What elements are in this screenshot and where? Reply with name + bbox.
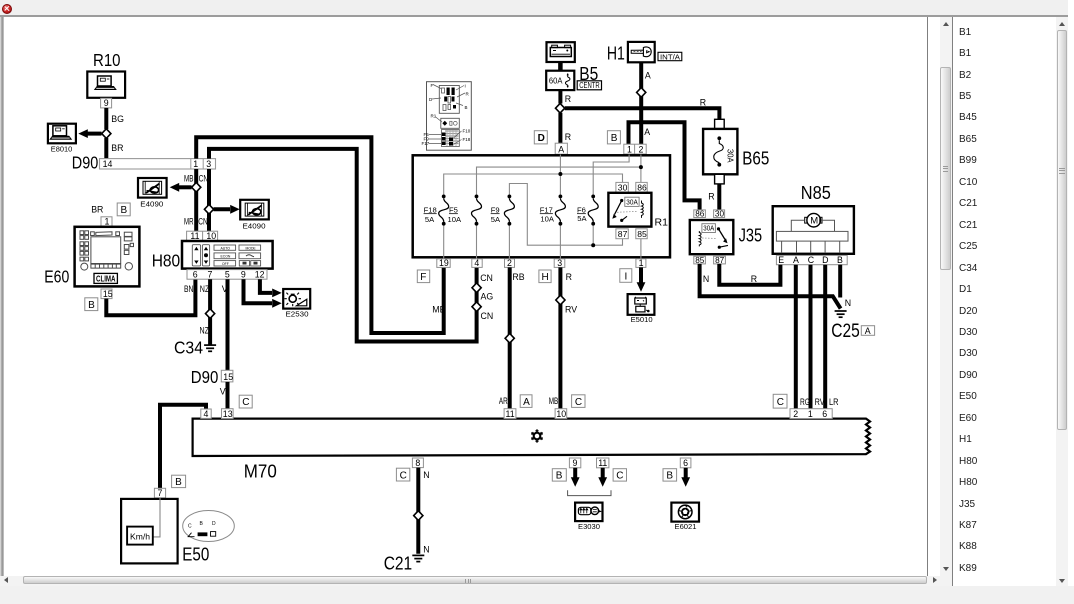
svg-text:J35: J35 <box>739 225 763 246</box>
pin 9 of M70 <box>569 458 580 468</box>
wire NZ from H80 pin7 to ground C34 <box>200 279 211 345</box>
wire R J35-87 to N85-E <box>719 264 780 285</box>
svg-text:N: N <box>423 470 429 480</box>
fuse 60A B5 <box>546 63 601 90</box>
connector B (E50) <box>172 475 186 488</box>
svg-text:F6: F6 <box>577 205 586 214</box>
svg-text:7: 7 <box>158 488 163 498</box>
svg-text:C: C <box>400 470 407 481</box>
svg-text:6: 6 <box>193 270 198 280</box>
component E3030 heated window <box>575 503 602 532</box>
connector C (M70 right) <box>773 394 787 408</box>
svg-text:M: M <box>810 216 818 227</box>
pin 9 of R10 <box>101 98 112 108</box>
component H1 ignition switch <box>607 42 682 64</box>
pin 11 of M70 bottom <box>597 458 609 468</box>
ground C25 <box>831 311 860 342</box>
svg-text:1: 1 <box>193 159 198 169</box>
svg-text:5A: 5A <box>425 215 435 224</box>
svg-text:H80: H80 <box>152 251 181 271</box>
svg-text:F5: F5 <box>449 205 458 214</box>
relay J35 <box>690 210 762 265</box>
svg-text:CLIMA: CLIMA <box>96 274 116 284</box>
splice diamond CN <box>204 205 213 215</box>
svg-text:NZ: NZ <box>200 284 210 294</box>
svg-text:E3030: E3030 <box>578 522 600 531</box>
svg-text:11: 11 <box>598 458 607 468</box>
svg-text:N: N <box>845 298 851 308</box>
svg-text:10: 10 <box>556 409 566 419</box>
wire MB bus: D90 pin1 up, right, down to fusebox pin 19 <box>196 137 445 333</box>
svg-text:C: C <box>808 255 815 265</box>
splice diamond H1 <box>637 88 646 98</box>
svg-text:1: 1 <box>105 217 110 227</box>
svg-text:B: B <box>837 255 843 265</box>
connector A (C25) <box>861 326 874 336</box>
svg-text:A: A <box>865 326 871 336</box>
svg-text:B: B <box>666 471 673 482</box>
connector F <box>417 270 429 283</box>
component B5 battery <box>547 42 575 62</box>
svg-text:BR: BR <box>91 204 103 214</box>
pin 8 of M70 <box>412 458 423 468</box>
svg-text:86: 86 <box>637 183 647 193</box>
component H80 control panel <box>152 241 273 271</box>
svg-text:INT/A: INT/A <box>660 52 681 61</box>
connector B (E60) <box>117 203 130 216</box>
svg-text:F17: F17 <box>540 205 553 214</box>
svg-text:A: A <box>644 127 650 137</box>
wire A from H1 <box>641 62 651 144</box>
svg-text:RB: RB <box>512 272 524 282</box>
svg-text:11: 11 <box>506 409 515 419</box>
svg-text:E5010: E5010 <box>631 315 653 324</box>
component E5010 <box>628 294 655 324</box>
svg-text:B: B <box>556 471 563 482</box>
svg-text:CN: CN <box>480 273 493 283</box>
svg-text:BG: BG <box>111 114 124 124</box>
svg-text:C: C <box>242 397 249 408</box>
svg-text:A: A <box>558 144 564 154</box>
svg-text:AR: AR <box>499 396 508 406</box>
svg-text:R: R <box>565 132 571 142</box>
pin strip 6 7 5 9 12 of H80 <box>187 270 267 280</box>
svg-text:R1: R1 <box>431 114 437 119</box>
wire CN fusebox pin4 with AG section <box>480 273 493 321</box>
wire H80 pin9 to E2530 <box>244 279 282 307</box>
component E8010 <box>48 124 76 154</box>
svg-text:NZ: NZ <box>200 325 210 335</box>
splice diamond on R10 wire <box>102 129 111 139</box>
svg-text:13: 13 <box>223 409 233 419</box>
svg-text:F: F <box>420 272 426 283</box>
svg-text:5A: 5A <box>491 215 501 224</box>
fusebox inset picture <box>422 82 472 151</box>
pin 4 of M70 <box>201 409 211 419</box>
svg-text:BR: BR <box>111 143 123 153</box>
svg-text:R: R <box>700 98 706 108</box>
svg-text:R: R <box>566 272 572 282</box>
fusebox body <box>413 155 670 257</box>
svg-text:1: 1 <box>639 258 644 268</box>
svg-text:CN: CN <box>481 311 494 321</box>
svg-text:F10: F10 <box>463 129 471 134</box>
connector C (M70 pin8) <box>396 468 409 481</box>
svg-text:F: F <box>431 83 434 88</box>
svg-text:4: 4 <box>474 258 479 268</box>
svg-text:87: 87 <box>715 256 725 265</box>
svg-text:C: C <box>188 523 192 529</box>
component R10 <box>87 50 125 98</box>
svg-text:MB: MB <box>184 173 194 183</box>
svg-text:E2530: E2530 <box>286 310 309 319</box>
middle vertical scrollbar <box>940 17 952 576</box>
svg-text:2: 2 <box>793 409 798 419</box>
component E4090 (right) <box>240 200 269 231</box>
svg-text:15: 15 <box>223 372 233 382</box>
svg-text:11: 11 <box>190 231 199 241</box>
svg-text:10A: 10A <box>540 215 554 224</box>
svg-text:OFF: OFF <box>222 262 229 266</box>
fuse F5 10A <box>448 195 482 226</box>
svg-text:19: 19 <box>439 258 449 268</box>
wire E60 pin15 to H80 pin 6 <box>106 279 195 315</box>
svg-text:87: 87 <box>618 229 628 239</box>
svg-text:N: N <box>423 545 429 555</box>
svg-text:7: 7 <box>208 270 213 280</box>
svg-text:4: 4 <box>204 409 209 419</box>
svg-text:86: 86 <box>695 210 705 219</box>
svg-text:B: B <box>465 105 468 110</box>
list panel border <box>952 17 953 586</box>
component E50 speed sensor display <box>121 498 209 565</box>
svg-text:M70: M70 <box>244 461 277 482</box>
connector H <box>539 270 551 283</box>
wire RV N85-C to M70 pin1 <box>811 265 825 409</box>
svg-text:R1: R1 <box>655 217 669 229</box>
wire N J35-85 to ground C25 <box>700 264 841 309</box>
connector D90 pin 15 <box>191 367 233 387</box>
wire V from H80 pin5 to D90 pin15 <box>222 279 228 370</box>
svg-text:C: C <box>616 471 623 482</box>
svg-text:F18: F18 <box>463 137 471 142</box>
connector C (E3030) <box>613 469 626 482</box>
pin 10 of M70 <box>555 409 567 419</box>
svg-text:V: V <box>222 284 228 294</box>
wire BG from R10 pin 9 <box>106 108 124 129</box>
wire R from B5 splice to fusebox pin A <box>560 113 571 144</box>
svg-text:3: 3 <box>557 258 562 268</box>
svg-text:RV: RV <box>815 397 825 407</box>
svg-text:C21: C21 <box>384 553 413 574</box>
svg-text:14: 14 <box>103 159 113 169</box>
wire fusebox pin1 to J35 pin 86 <box>629 122 700 210</box>
svg-text:D: D <box>822 255 828 265</box>
wire BN <box>184 284 194 294</box>
svg-text:B65: B65 <box>742 148 769 169</box>
svg-text:V: V <box>220 387 226 397</box>
pins 1 2 of fusebox <box>624 144 646 154</box>
svg-text:9: 9 <box>241 270 246 280</box>
wire N M70 pin8 to ground C21 <box>418 468 429 555</box>
wire battery to fuse B5 <box>558 62 563 71</box>
pin strip 11 10 of H80 <box>187 231 218 241</box>
component E2530 rheostat <box>283 289 310 319</box>
svg-text:30A: 30A <box>725 149 734 163</box>
svg-text:12: 12 <box>255 270 265 280</box>
diagram right border <box>927 17 928 576</box>
svg-text:AUTO: AUTO <box>221 247 231 251</box>
svg-text:R: R <box>751 274 757 284</box>
svg-text:30: 30 <box>715 210 725 219</box>
svg-text:10: 10 <box>206 231 216 241</box>
pin 7 of E50 <box>154 488 165 498</box>
svg-text:B: B <box>121 205 128 216</box>
pin 6 of M70 bottom <box>680 458 691 468</box>
connector I <box>620 269 632 283</box>
wire R from B5 to splice <box>560 90 571 104</box>
svg-text:60A: 60A <box>549 76 563 85</box>
svg-text:R: R <box>565 94 571 104</box>
svg-text:Km/h: Km/h <box>130 532 150 542</box>
horizontal scrollbar <box>0 576 952 586</box>
svg-text:D90: D90 <box>191 367 219 387</box>
fuse F6 5A <box>577 195 598 226</box>
svg-text:6: 6 <box>822 409 827 419</box>
svg-text:2: 2 <box>507 258 512 268</box>
svg-text:F9: F9 <box>491 205 500 214</box>
wires to E3030 <box>568 468 611 496</box>
svg-text:15: 15 <box>103 289 113 299</box>
connector C (M70 pin10) <box>572 395 585 408</box>
svg-text:6: 6 <box>683 458 688 468</box>
svg-text:E6021: E6021 <box>675 522 697 531</box>
wire RB/AR fusebox pin2 to M70 pin11 <box>499 267 525 408</box>
pin 15 of E60 <box>101 289 113 299</box>
svg-text:R10: R10 <box>93 50 121 70</box>
wire R main feed to B65 <box>565 98 720 120</box>
component E60 CLIMA unit <box>44 227 139 287</box>
wire MB D90 pin1 down to H80 pin 11 <box>184 169 196 231</box>
pin A of fusebox <box>555 143 567 154</box>
svg-text:CN: CN <box>198 217 208 227</box>
svg-text:D: D <box>538 133 545 144</box>
arrow tap to E4090 right <box>214 205 240 214</box>
svg-text:N: N <box>703 274 709 284</box>
ground C34 <box>174 338 216 358</box>
svg-text:C34: C34 <box>174 338 203 358</box>
svg-text:CENTR: CENTR <box>579 81 600 90</box>
connector strip D90 <box>72 153 216 173</box>
gauge cluster bubble <box>183 511 235 542</box>
svg-text:5: 5 <box>225 270 230 280</box>
left window edge band <box>0 17 4 586</box>
connector B (E6021) <box>663 469 677 482</box>
svg-text:E60: E60 <box>44 267 69 287</box>
wire N85-B to ground C25 <box>840 265 851 308</box>
svg-text:E8010: E8010 <box>51 145 73 154</box>
svg-text:A: A <box>793 255 799 265</box>
svg-text:LR: LR <box>829 397 839 407</box>
svg-text:85: 85 <box>637 229 647 239</box>
svg-text:8: 8 <box>415 458 420 468</box>
wire R B65 to J35 pin 30 <box>708 184 719 210</box>
fusebox bottom pins 19 4 2 3 1 <box>437 258 646 268</box>
snowflake indicator <box>531 429 542 442</box>
component E4090 (left) <box>138 178 167 209</box>
svg-text:RV: RV <box>565 305 577 315</box>
svg-text:H1: H1 <box>607 43 625 64</box>
svg-text:1: 1 <box>627 144 632 154</box>
arrow tap to E8010 <box>78 129 101 138</box>
svg-text:B: B <box>175 477 182 488</box>
pin 13 of M70 <box>222 409 234 419</box>
svg-text:MB: MB <box>432 305 445 315</box>
wire to E6021 <box>681 468 690 487</box>
svg-text:MB: MB <box>549 396 559 406</box>
svg-text:A: A <box>523 397 530 408</box>
component N85 blower resistor unit <box>773 182 854 254</box>
pin strip E A C D B of N85 <box>776 255 847 265</box>
svg-text:C25: C25 <box>831 320 860 342</box>
svg-text:ECON: ECON <box>221 254 231 258</box>
wire H80 pin12 to E2530 <box>260 279 282 297</box>
svg-text:30A: 30A <box>703 224 714 233</box>
wire E5010 feed <box>637 267 646 291</box>
wire V to M70 pin 13 <box>220 382 228 409</box>
svg-text:MODE: MODE <box>246 247 257 251</box>
fuse F18 5A <box>424 195 449 226</box>
pin 11 of M70 <box>504 409 516 419</box>
component M70 instrument panel <box>193 419 870 482</box>
svg-text:10A: 10A <box>448 215 462 224</box>
wire RG N85-A to M70 pin2 <box>796 265 810 409</box>
svg-text:1: 1 <box>808 409 813 419</box>
fusebox internal wiring <box>444 155 641 259</box>
wire BR E60 pin 1 <box>91 204 103 214</box>
component B65 fuse 30A <box>703 119 769 184</box>
ground C21 <box>384 553 425 574</box>
svg-text:30A: 30A <box>626 197 638 206</box>
svg-text:5A: 5A <box>577 214 587 223</box>
svg-text:C: C <box>575 397 582 408</box>
title bar <box>0 0 1068 15</box>
svg-text:I: I <box>465 84 466 89</box>
svg-text:E50: E50 <box>182 544 209 565</box>
svg-text:D90: D90 <box>72 153 99 173</box>
svg-text:R: R <box>708 192 714 202</box>
connector A (M70 pin11) <box>520 395 532 408</box>
svg-text:B: B <box>88 300 95 311</box>
svg-text:9: 9 <box>573 458 578 468</box>
svg-text:I: I <box>625 271 628 282</box>
svg-text:9: 9 <box>104 98 109 108</box>
svg-text:A: A <box>645 71 651 81</box>
relay R1 <box>608 182 668 239</box>
svg-text:F18: F18 <box>424 205 437 214</box>
component list <box>959 0 1054 586</box>
splice diamond B5 <box>556 103 565 113</box>
svg-text:AG: AG <box>481 292 494 302</box>
connector B (E60 pin15) <box>85 298 98 311</box>
wire BR to D90 pin 14 <box>106 138 123 159</box>
svg-text:E4090: E4090 <box>243 221 266 230</box>
svg-text:E4090: E4090 <box>140 200 163 209</box>
svg-text:H: H <box>542 272 549 283</box>
svg-text:E: E <box>778 255 784 265</box>
svg-text:F17: F17 <box>422 141 430 146</box>
svg-text:MR: MR <box>184 217 194 227</box>
window top border line <box>0 15 1068 17</box>
svg-text:N85: N85 <box>801 182 831 203</box>
connector C (M70 pin13) <box>239 395 252 408</box>
svg-text:85: 85 <box>695 256 705 265</box>
fuse F17 10A <box>540 195 566 226</box>
svg-text:CN: CN <box>199 173 209 183</box>
svg-text:B: B <box>611 133 618 144</box>
arrow tap to E4090 left <box>170 183 192 192</box>
close button <box>2 4 12 14</box>
svg-text:BN: BN <box>184 284 194 294</box>
far right scrollbar <box>1056 17 1068 586</box>
svg-text:30: 30 <box>618 183 628 193</box>
splice diamond MB/MR <box>192 183 201 193</box>
connector B (E3030) <box>552 469 566 482</box>
wire CN bus: D90 pin3 up, right, down to fusebox pin 4 <box>209 149 477 342</box>
svg-text:2: 2 <box>639 144 644 154</box>
connector D (bold) <box>534 131 547 145</box>
main schematic svg placeholder <box>4 17 927 575</box>
svg-text:D: D <box>212 521 216 527</box>
wire LR N85-D to M70 pin6 <box>825 265 838 409</box>
wire E50 pin7 to M70 pin4 <box>160 405 206 489</box>
fuse F9 5A <box>491 195 515 226</box>
wire CN D90 pin3 down to H80 pin 10 <box>198 169 209 231</box>
status bar <box>0 586 1074 604</box>
pin strip 2 1 6 of M70 <box>790 409 832 419</box>
svg-text:C: C <box>777 397 784 408</box>
connector B <box>607 131 620 145</box>
svg-text:3: 3 <box>206 159 211 169</box>
component E6021 pump <box>671 503 699 532</box>
pin 1 of E60 <box>101 217 112 227</box>
wire R/RV/MB fusebox pin3 to M70 pin10 <box>549 267 577 408</box>
